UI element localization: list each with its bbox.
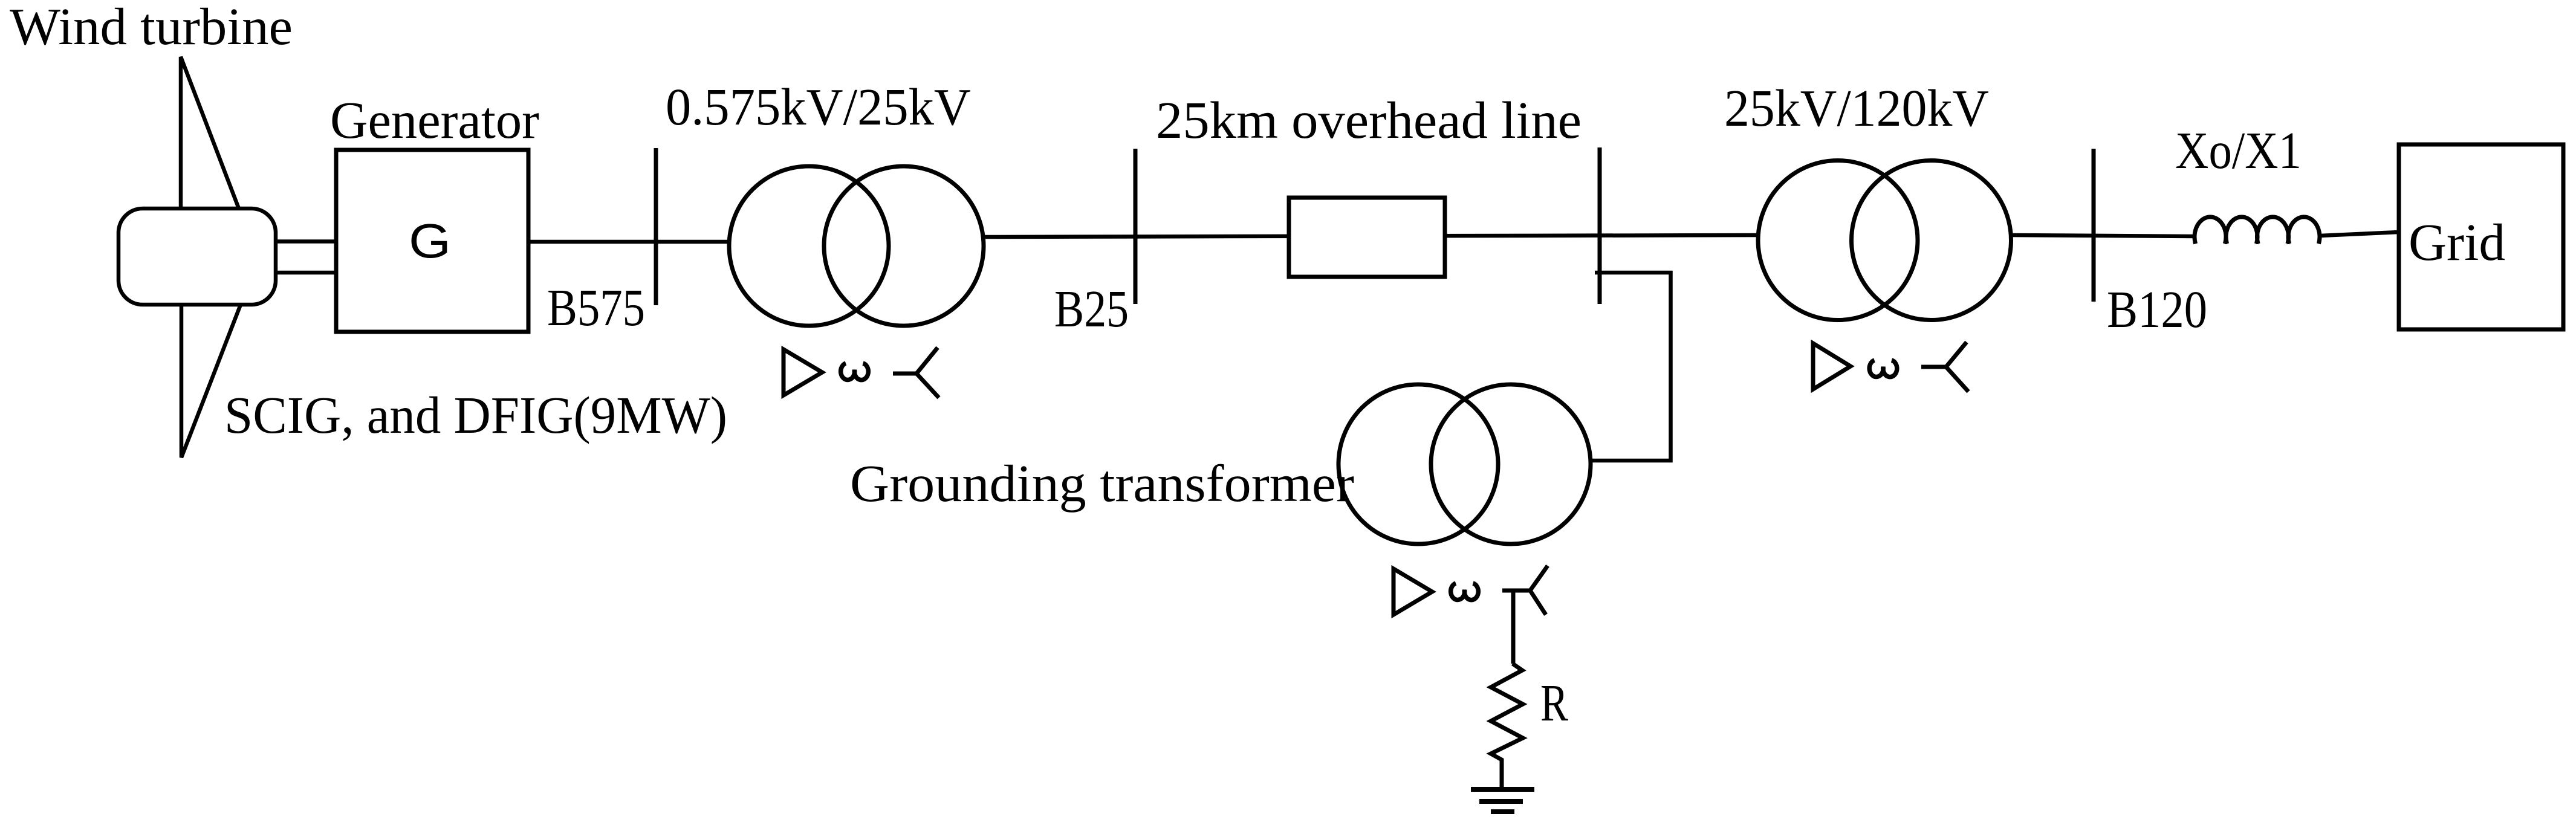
svg-text:Grid: Grid bbox=[2409, 213, 2505, 271]
svg-text:0.575kV/25kV: 0.575kV/25kV bbox=[666, 77, 971, 136]
svg-text:B25: B25 bbox=[1054, 279, 1129, 338]
svg-text:R: R bbox=[1540, 673, 1568, 732]
svg-text:SCIG, and DFIG(9MW): SCIG, and DFIG(9MW) bbox=[224, 386, 727, 444]
svg-text:Wind turbine: Wind turbine bbox=[10, 0, 293, 56]
svg-text:25km overhead line: 25km overhead line bbox=[1156, 91, 1582, 149]
svg-text:G: G bbox=[409, 214, 451, 268]
svg-text:B120: B120 bbox=[2107, 280, 2207, 338]
svg-text:Xo/X1: Xo/X1 bbox=[2175, 121, 2302, 180]
svg-text:25kV/120kV: 25kV/120kV bbox=[1724, 79, 1989, 137]
svg-text:Grounding transformer: Grounding transformer bbox=[850, 454, 1354, 513]
svg-text:Generator: Generator bbox=[330, 91, 539, 149]
svg-text:B575: B575 bbox=[547, 278, 645, 337]
